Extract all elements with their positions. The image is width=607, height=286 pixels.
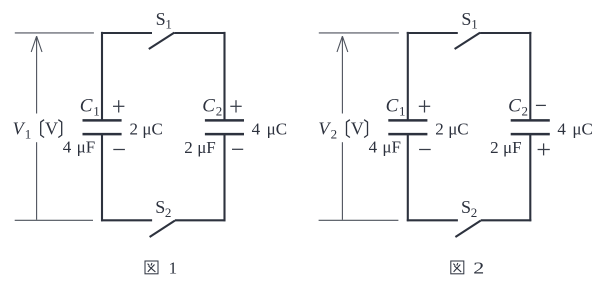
svg-text:S: S	[156, 9, 166, 29]
svg-text:S: S	[155, 197, 165, 217]
wire: fig.1 bottom, right of switch S2	[175, 219, 226, 221]
polarity + (C1 fig.2)	[419, 100, 430, 112]
value label 4 uF (C1 fig.2)	[369, 138, 401, 157]
polarity - (C2 fig.1)	[232, 148, 243, 150]
capacitor C1 (fig.1) plates	[83, 120, 122, 134]
svg-text:μC: μC	[267, 120, 287, 139]
svg-text:μF: μF	[197, 138, 216, 157]
svg-text:2: 2	[165, 205, 172, 220]
label S1 (fig.2)	[461, 9, 477, 32]
svg-text:2: 2	[490, 138, 499, 157]
capacitor C1 (fig.2) plates	[388, 120, 427, 134]
wire: fig.2 left vertical, top half	[407, 32, 409, 121]
svg-text:4: 4	[369, 138, 378, 157]
svg-text:V: V	[351, 119, 364, 139]
svg-text:V: V	[13, 119, 26, 139]
svg-text:2: 2	[331, 127, 338, 142]
svg-text:2: 2	[471, 205, 478, 220]
polarity + (C2 fig.2)	[538, 143, 550, 155]
svg-text:2: 2	[130, 120, 139, 139]
value label 4 uF (C1 fig.1)	[63, 138, 95, 157]
svg-text:2: 2	[184, 138, 193, 157]
wire: fig.2 right vertical, bottom half	[529, 134, 531, 221]
label C1 (fig.2)	[386, 95, 406, 118]
polarity - (C1 fig.1)	[113, 149, 125, 151]
label C2 (fig.1)	[202, 95, 222, 118]
value label 2 uF (C2 fig.1)	[184, 138, 215, 157]
value label 2 uC (C1 fig.1)	[130, 120, 163, 139]
svg-text:μC: μC	[142, 120, 162, 139]
svg-text:2: 2	[522, 103, 529, 118]
label V2 [V]	[318, 119, 367, 142]
svg-text:S: S	[461, 9, 471, 29]
svg-text:S: S	[461, 197, 471, 217]
wire: fig.1 right vertical, top half	[223, 32, 225, 121]
wire: fig.2 bottom, left of switch S2	[407, 219, 458, 221]
value label 2 uC (C1 fig.2)	[435, 120, 468, 139]
svg-text:2: 2	[473, 258, 484, 277]
wire: fig.2 top, left of switch S1	[407, 32, 458, 34]
wire: fig.1 top, left of switch S1	[101, 32, 152, 34]
wire: fig.1 right vertical, bottom half	[223, 134, 225, 221]
wire: fig.1 left vertical, top half	[101, 32, 103, 121]
svg-text:μF: μF	[503, 138, 522, 157]
svg-text:2: 2	[435, 120, 444, 139]
svg-text:2: 2	[216, 103, 223, 118]
capacitor C2 (fig.2) plates	[511, 120, 550, 134]
svg-text:4: 4	[252, 120, 261, 139]
svg-text:4: 4	[557, 120, 566, 139]
label S2 (fig.2)	[461, 197, 477, 220]
wire: fig.1 top, right of switch S1	[174, 32, 225, 34]
capacitor C2 (fig.1) plates	[205, 120, 244, 134]
svg-text:C: C	[80, 95, 93, 116]
svg-text:1: 1	[25, 127, 32, 142]
switch S2 (fig.1) blade	[150, 221, 175, 238]
wire: fig.1 left vertical, bottom half	[101, 134, 103, 221]
node: bottom reference line (fig.1)	[15, 219, 93, 221]
svg-text:μF: μF	[77, 138, 96, 157]
svg-text:1: 1	[165, 17, 172, 32]
value label 2 uF (C2 fig.2)	[490, 138, 521, 157]
label S2 (fig.1)	[155, 197, 171, 220]
figure caption 図 1	[145, 259, 177, 278]
wire: fig.2 right vertical, top half	[529, 32, 531, 121]
value label 4 uC (C2 fig.1)	[252, 120, 287, 139]
node: top reference line (fig.1)	[15, 32, 94, 34]
switch S1 (fig.1) blade	[149, 33, 175, 49]
node: top reference line (fig.2)	[319, 32, 399, 34]
label C1 (fig.1)	[80, 95, 100, 118]
svg-text:μC: μC	[448, 120, 468, 139]
node: bottom reference line (fig.2)	[319, 219, 399, 221]
svg-text:1: 1	[169, 259, 178, 278]
svg-text:μC: μC	[572, 120, 592, 139]
value label 4 uC (C2 fig.2)	[557, 120, 592, 139]
wire: fig.2 top, right of switch S1	[480, 32, 531, 34]
polarity - (C1 fig.2)	[419, 149, 431, 151]
switch S2 (fig.2) blade	[455, 221, 480, 238]
wire: fig.2 left vertical, bottom half	[407, 134, 409, 221]
switch S1 (fig.2) blade	[455, 33, 481, 49]
voltage arrow V1	[31, 36, 42, 220]
svg-text:C: C	[508, 95, 521, 116]
polarity - (C2 fig.2)	[536, 104, 546, 106]
svg-text:4: 4	[63, 138, 72, 157]
svg-text:μF: μF	[382, 138, 401, 157]
polarity + (C1 fig.1)	[113, 100, 124, 112]
svg-text:1: 1	[471, 17, 478, 32]
svg-text:V: V	[45, 119, 58, 139]
svg-text:C: C	[202, 95, 215, 116]
wire: fig.2 bottom, right of switch S2	[481, 219, 532, 221]
label C2 (fig.2)	[508, 95, 528, 118]
svg-text:1: 1	[399, 103, 406, 118]
voltage arrow V2	[337, 36, 348, 220]
svg-text:1: 1	[93, 103, 100, 118]
polarity + (C2 fig.1)	[230, 100, 241, 112]
label V1 [V]	[13, 119, 62, 142]
figure caption 図 2	[451, 258, 485, 277]
wire: fig.1 bottom, left of switch S2	[101, 219, 152, 221]
svg-text:V: V	[318, 119, 331, 139]
label S1 (fig.1)	[156, 9, 172, 32]
svg-text:C: C	[386, 95, 399, 116]
